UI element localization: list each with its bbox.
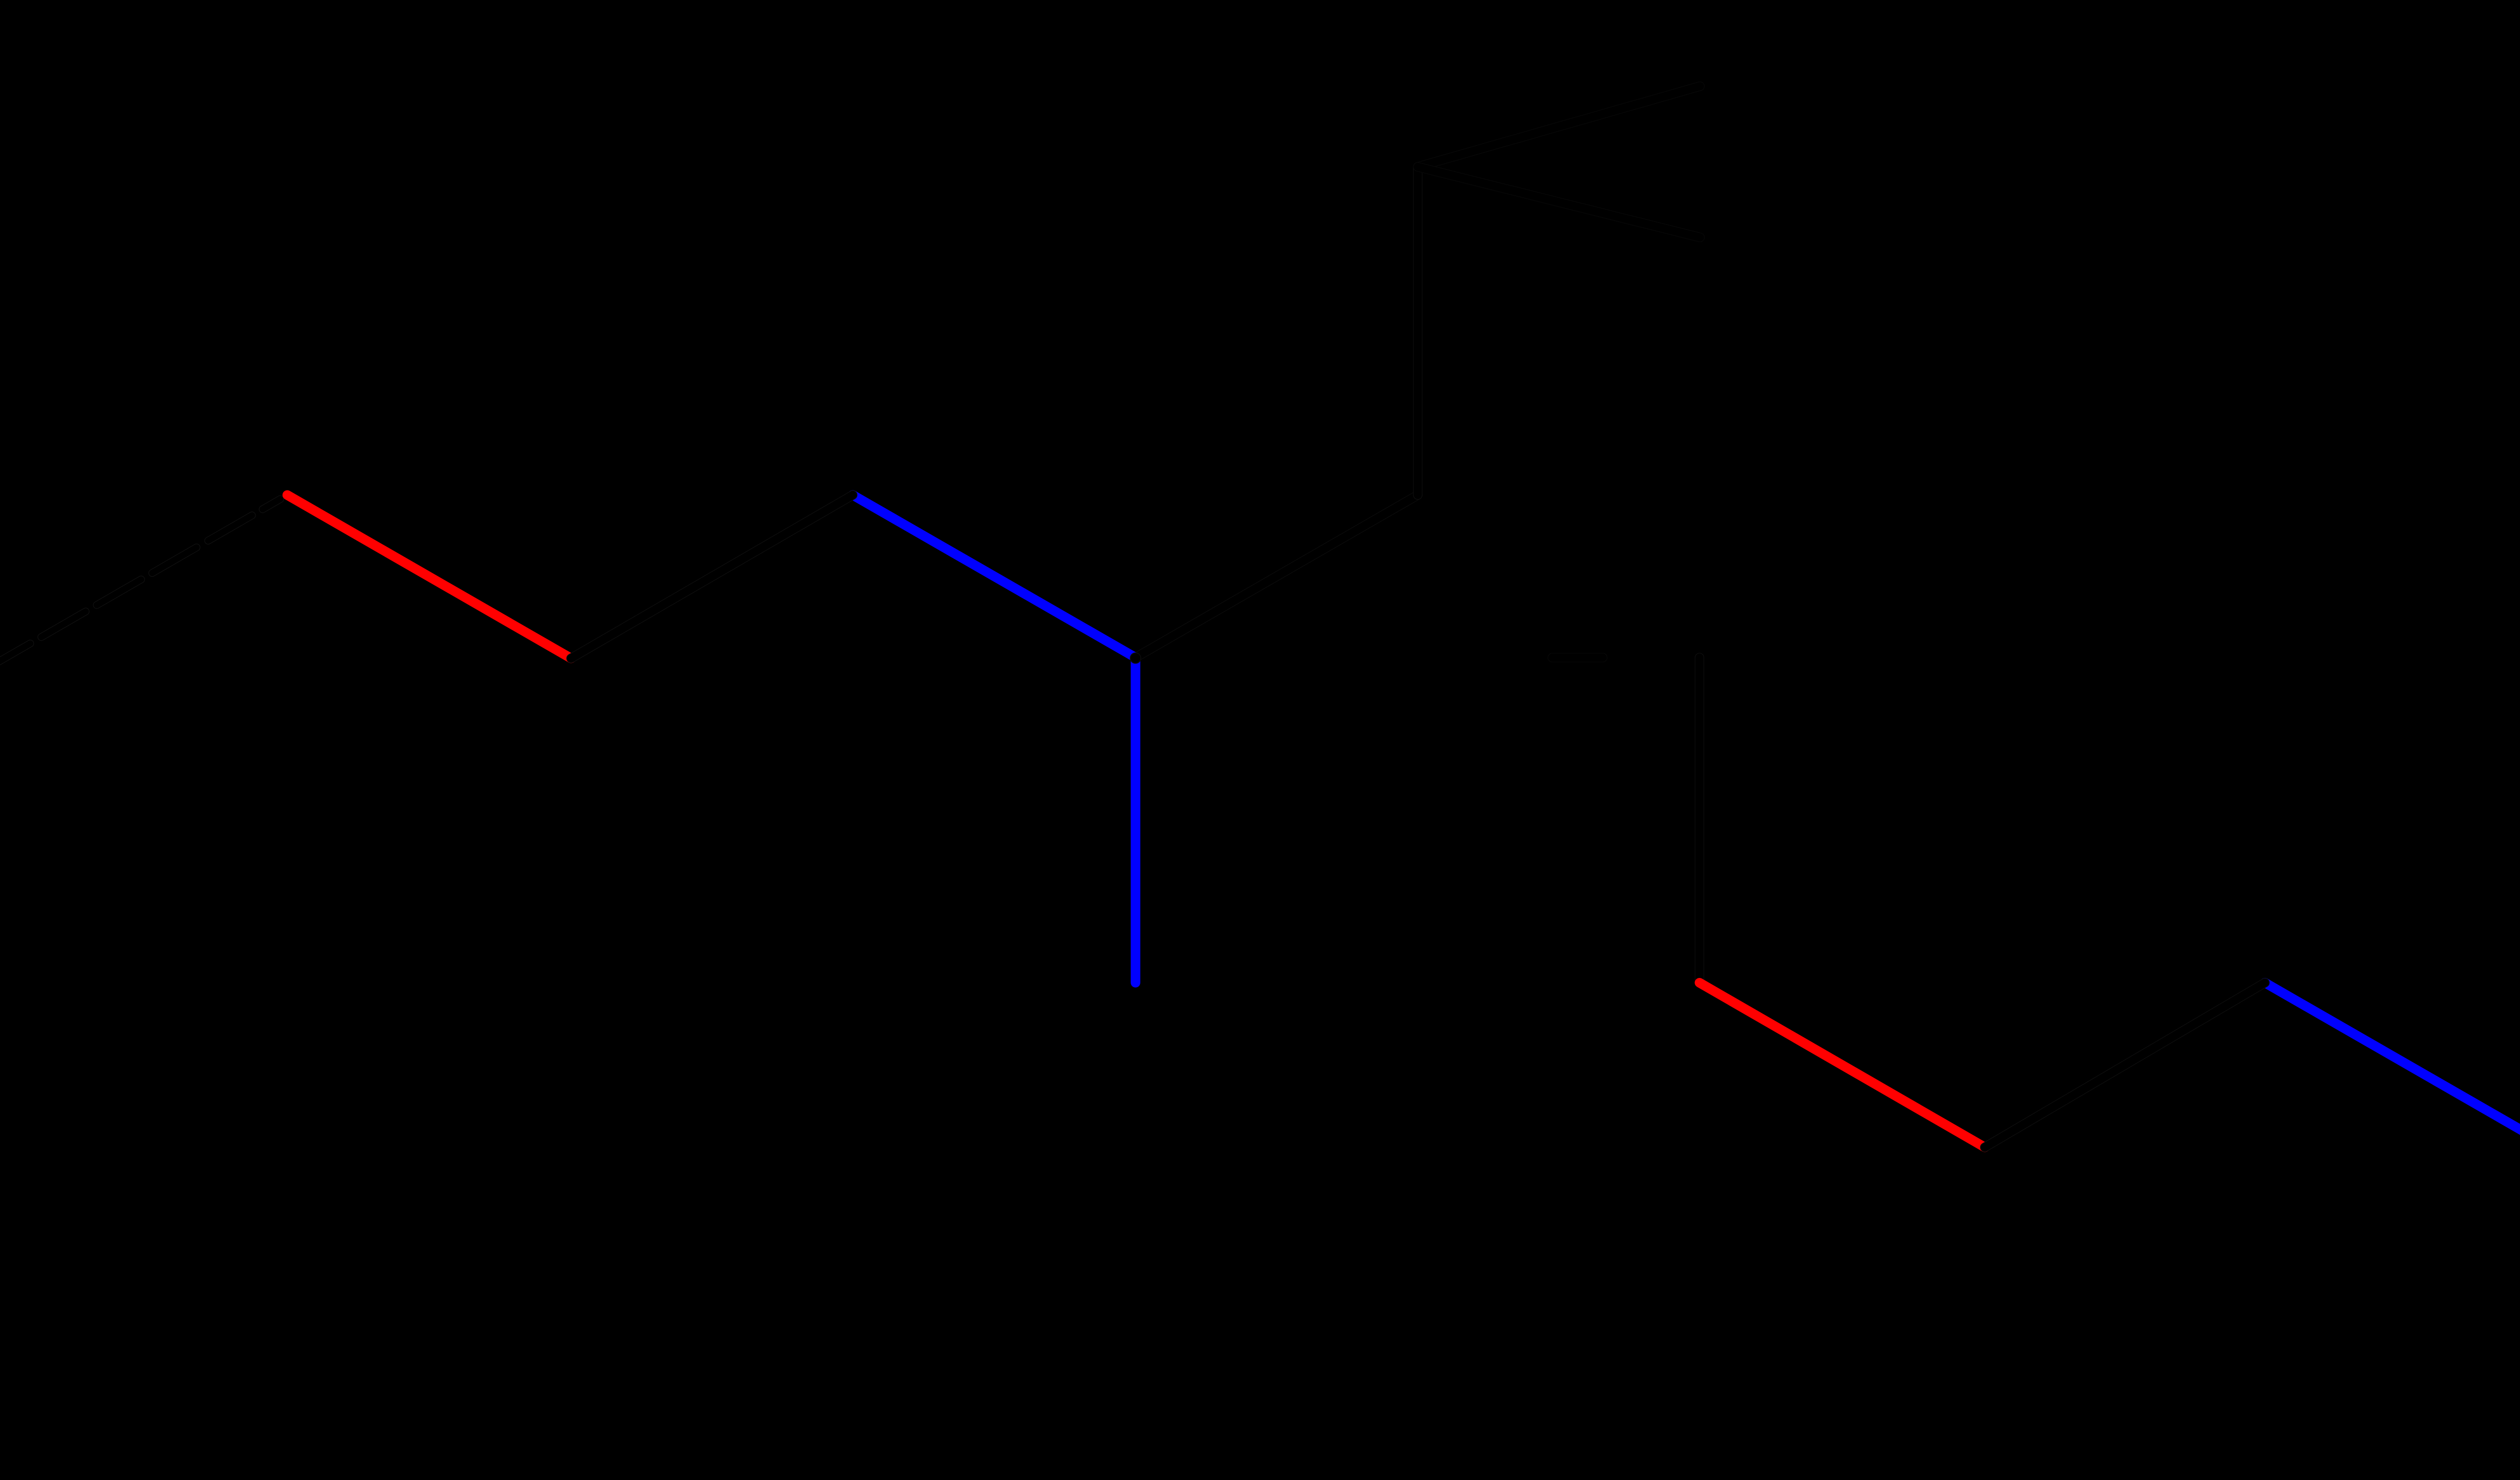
bond highlight red R1 (A-B) (287, 495, 571, 658)
dash 5 (short, ends before red cap) (263, 499, 280, 509)
dash 4 (208, 515, 252, 540)
bond highlight red R2 (F-G) (1699, 983, 1985, 1148)
dash 0 (0, 644, 30, 669)
dashed attachment bond A0-A (under red), faint outlined dashes (0, 499, 280, 669)
bond highlight blue B1 (C-D-E) (853, 495, 1136, 983)
bond highlight blue B2 (H-I-J) (2265, 983, 2520, 1474)
black bond K-N vertical faint rim (1413, 167, 1423, 495)
faint horizontal rim fragment near V1 (1552, 653, 1603, 662)
dash 3 (152, 547, 197, 573)
black bond D-K faint rim (1136, 495, 1418, 658)
black bond G-H over red/blue ends, faint rim (1985, 983, 2265, 1148)
dash 2 (97, 580, 141, 605)
black bond B-C over red/blue ends, faint rim (571, 495, 853, 658)
faint shallow bonds at N (1418, 86, 1700, 237)
atom disc at D (1130, 653, 1141, 663)
black bond V1-F vertical faint rim (1695, 658, 1705, 983)
dash 1 (41, 611, 86, 637)
